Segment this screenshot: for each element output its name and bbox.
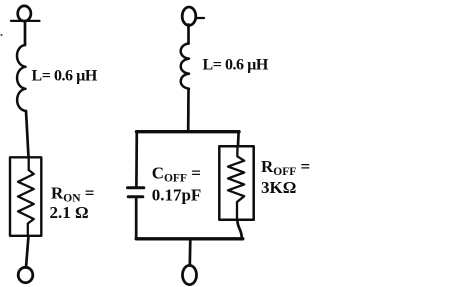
resistor R_OFF box [219, 146, 253, 219]
wire (left top lead) [24, 22, 27, 46]
svg-text:ROFF =: ROFF = [261, 157, 310, 178]
terminal P4 (right circuit bottom port) [183, 265, 197, 284]
wire (right branch lower, R_OFF box to bottom bar) [237, 220, 241, 239]
wire (tick at right of top port) [197, 17, 205, 19]
wire (R_ON box to bottom terminal) [26, 236, 29, 268]
svg-text:L= 0.6 µH: L= 0.6 µH [203, 56, 269, 73]
resistor R_ON zigzag [18, 157, 34, 236]
wire (inductor to R_ON box) [26, 111, 29, 157]
wire (bottom stub to terminal) [188, 240, 191, 265]
svg-text:RON =: RON = [51, 183, 94, 204]
wire (left branch upper, node to capacitor) [135, 132, 138, 186]
svg-text:L= 0.6 µH: L= 0.6 µH [32, 67, 98, 84]
wire (right branch upper, node to R_OFF box) [237, 132, 240, 146]
svg-text:COFF =: COFF = [152, 164, 201, 185]
wire (inductor to parallel node) [187, 89, 190, 132]
terminal P2 (left circuit bottom port) [18, 267, 33, 282]
svg-text:2.1 Ω: 2.1 Ω [50, 203, 89, 222]
svg-text:3KΩ: 3KΩ [261, 178, 296, 197]
wire (bottom bar of parallel section) [136, 237, 243, 240]
terminal P3 (right circuit top port) [182, 7, 196, 25]
stray scan speck at left edge [0, 34, 2, 36]
resistor R_OFF zigzag [228, 146, 244, 219]
wire (top bar of parallel section) [137, 130, 240, 133]
inductor L2 (right, L = 0.6 uH) [181, 44, 189, 89]
wire (left branch lower, capacitor to bottom bar) [135, 199, 138, 239]
svg-text:0.17pF: 0.17pF [152, 185, 202, 204]
inductor L1 (left, L = 0.6 uH) [17, 45, 26, 111]
terminal P1 (left circuit top port) [18, 6, 31, 21]
capacitor C_OFF plates [128, 188, 144, 197]
resistor R_ON box [10, 157, 41, 236]
wire (right top lead) [187, 25, 190, 44]
wire (left top bar) [11, 20, 40, 22]
